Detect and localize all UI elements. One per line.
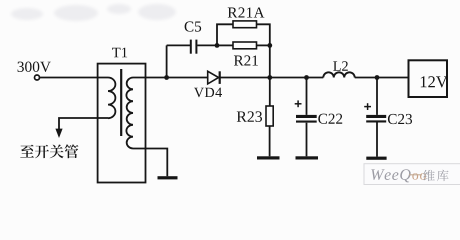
arrow to switching transistor — [55, 129, 62, 138]
label R21A — [228, 7, 265, 17]
polarity + of C22 — [295, 100, 302, 107]
ground (R23) — [257, 156, 280, 159]
wire: C23 top lead — [376, 78, 378, 115]
wire: R23 top lead — [269, 78, 271, 107]
ground (C23) — [366, 157, 386, 160]
wire: diode cathode to L2 — [220, 77, 324, 79]
node: junction of secondary and C5 branch — [164, 75, 169, 80]
transformer T1 core — [120, 69, 122, 136]
ground (transformer secondary) — [158, 176, 178, 179]
diode VD4 — [208, 71, 219, 84]
label 至开关管 — [20, 144, 78, 158]
wire: primary bottom lead to switching transistor — [59, 118, 108, 130]
node: C22 junction — [304, 75, 309, 80]
node: C23 junction — [375, 75, 380, 80]
transformer T1 primary winding — [108, 78, 115, 119]
label C23 — [388, 114, 412, 124]
wire: L2 to 12V block — [355, 77, 409, 79]
label C5 — [185, 21, 202, 31]
wire: C5 right plate to junction — [197, 44, 217, 46]
wire: snubber connector down to main line — [269, 45, 271, 77]
watermark box — [364, 164, 460, 185]
wire: R21A right lead down — [257, 24, 270, 45]
transformer T1 secondary winding — [126, 78, 133, 149]
resistor R21A — [233, 21, 257, 28]
watermark WeeQoo logo text — [371, 169, 448, 182]
wire: R21 right lead — [257, 44, 270, 46]
polarity + of C23 — [364, 103, 371, 110]
label R23 — [237, 111, 262, 122]
wire: secondary top to diode anode — [133, 77, 208, 79]
node: R21 / R21A right junction — [267, 43, 272, 48]
label VD4 — [194, 88, 222, 98]
wire: left connector up to R21A — [217, 24, 233, 45]
label T1 — [112, 48, 127, 58]
wire: C22 bottom lead — [306, 123, 308, 157]
node: C5 / R21 / R21A junction — [215, 43, 220, 48]
capacitor C22 — [296, 115, 317, 118]
wire: C23 bottom lead — [376, 122, 378, 156]
inductor L2 — [323, 72, 354, 77]
wire: riser to C5 left plate — [167, 44, 190, 46]
capacitor C23 — [366, 115, 386, 118]
label L2 — [333, 61, 348, 70]
block: 12V output — [409, 60, 448, 97]
label R21 — [234, 55, 258, 65]
ground (C22) — [296, 156, 319, 159]
wire: secondary bottom lead — [133, 149, 167, 177]
terminal: 300V input — [35, 75, 40, 80]
transformer T1 box — [98, 64, 146, 183]
resistor R21 — [233, 42, 257, 49]
label 12V — [421, 76, 448, 87]
resistor R23 — [266, 106, 273, 126]
wire: C5 branch riser — [166, 45, 168, 77]
wire: C22 top lead — [306, 78, 308, 115]
node: diode cathode / R23 junction — [267, 75, 272, 80]
label 300V — [18, 62, 51, 72]
label C22 — [318, 114, 342, 124]
wire: 300V terminal to transformer primary — [40, 77, 108, 79]
wire: R21 left lead — [217, 44, 233, 46]
wire: R23 bottom lead — [269, 126, 271, 156]
capacitor C5 — [190, 40, 192, 54]
